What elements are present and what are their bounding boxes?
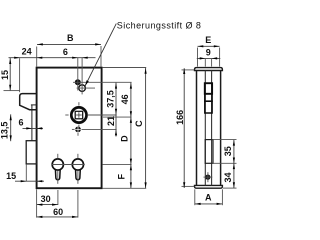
svg-text:9: 9 xyxy=(206,48,211,58)
svg-text:F: F xyxy=(116,173,126,179)
svg-text:13,5: 13,5 xyxy=(0,122,10,140)
svg-text:35: 35 xyxy=(223,146,233,156)
svg-text:46: 46 xyxy=(120,94,130,104)
svg-text:E: E xyxy=(205,35,211,45)
svg-text:Sicherungsstift Ø 8: Sicherungsstift Ø 8 xyxy=(117,21,202,31)
svg-text:A: A xyxy=(205,193,212,203)
svg-text:15: 15 xyxy=(0,70,10,80)
svg-text:24: 24 xyxy=(22,47,32,57)
svg-text:C: C xyxy=(134,120,144,127)
svg-text:34: 34 xyxy=(223,172,233,182)
svg-text:6: 6 xyxy=(18,117,23,127)
svg-text:166: 166 xyxy=(175,110,185,125)
svg-text:B: B xyxy=(67,33,74,43)
svg-text:30: 30 xyxy=(41,194,51,204)
svg-text:D: D xyxy=(120,135,130,142)
svg-text:15: 15 xyxy=(6,171,16,181)
svg-text:37,5: 37,5 xyxy=(106,90,116,108)
svg-text:6: 6 xyxy=(63,47,68,57)
svg-text:60: 60 xyxy=(53,207,63,217)
